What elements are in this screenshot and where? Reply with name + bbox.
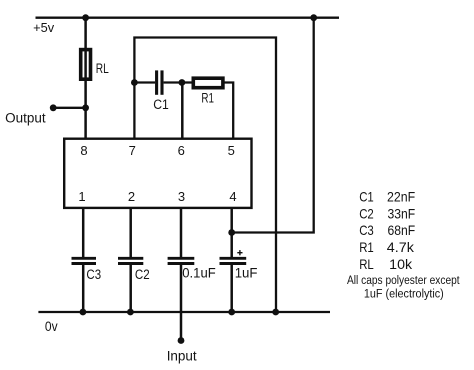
- svg-text:RL: RL: [359, 256, 374, 272]
- svg-text:R1: R1: [201, 91, 214, 106]
- wire: junction to R1 left: [182, 81, 192, 83]
- 1uF polarity + mark: [237, 252, 242, 254]
- wire: 0.1uF down across 0v rail to Input node: [180, 264, 183, 341]
- wire: pin 1 to C3: [82, 209, 85, 258]
- capacitor C2: [118, 257, 143, 260]
- capacitor C1: [155, 70, 158, 94]
- junction: pin 4 / +5v riser / 1uF: [228, 229, 235, 236]
- svg-text:Input: Input: [167, 348, 197, 363]
- svg-text:1: 1: [78, 189, 85, 204]
- junction: +5v rail / pin4 riser: [310, 14, 317, 21]
- wire: pin 3 to 0.1uF: [180, 209, 183, 258]
- svg-text:C2: C2: [359, 205, 374, 221]
- svg-text:4: 4: [229, 189, 236, 204]
- capacitor C3: [72, 257, 97, 260]
- svg-text:33nF: 33nF: [388, 205, 416, 221]
- node: Output terminal: [50, 104, 57, 111]
- wire: pin 6 riser: [181, 83, 184, 139]
- junction: C3 / 0v rail: [80, 309, 87, 316]
- wire: R1 right to pin 5: [224, 83, 233, 139]
- wire: C3 to 0v rail: [82, 264, 85, 313]
- resistor R1: [193, 78, 223, 88]
- svg-text:0.1uF: 0.1uF: [182, 266, 215, 281]
- svg-text:2: 2: [128, 189, 135, 204]
- svg-text:RL: RL: [96, 61, 109, 76]
- wire: C1 left lead: [134, 81, 155, 83]
- svg-text:6: 6: [178, 143, 185, 158]
- wire: +5v rail through RL down to IC pin 8: [84, 17, 87, 139]
- svg-text:Output: Output: [5, 110, 46, 125]
- wire: C2 to 0v rail: [129, 264, 132, 313]
- junction: +5v rail / RL branch: [82, 14, 89, 21]
- svg-text:All caps polyester except: All caps polyester except: [347, 275, 460, 287]
- +5v rail: [36, 17, 340, 19]
- svg-text:22nF: 22nF: [387, 189, 415, 205]
- svg-text:C3: C3: [86, 267, 101, 282]
- svg-text:1uF (electrolytic): 1uF (electrolytic): [364, 289, 444, 301]
- capacitor 0.1uF (input coupling): [168, 257, 195, 260]
- svg-text:R1: R1: [359, 239, 374, 255]
- wire: C1 right lead: [164, 81, 182, 83]
- svg-text:C2: C2: [135, 267, 150, 282]
- wire: pin 4 junction to +5v riser: [232, 17, 314, 233]
- svg-text:68nF: 68nF: [388, 222, 416, 238]
- wire: pin 2 to C2: [129, 209, 132, 258]
- svg-text:4.7k: 4.7k: [387, 239, 415, 255]
- junction: output tap / pin 8 wire: [82, 104, 89, 111]
- wire: 1uF to 0v rail: [230, 264, 233, 313]
- svg-text:10k: 10k: [389, 256, 413, 272]
- svg-text:C1: C1: [153, 97, 169, 112]
- svg-text:8: 8: [80, 143, 87, 158]
- node: Input terminal: [178, 337, 185, 344]
- svg-text:+5v: +5v: [33, 21, 55, 35]
- svg-text:1uF: 1uF: [235, 266, 258, 281]
- svg-text:C1: C1: [359, 189, 374, 205]
- svg-text:5: 5: [228, 143, 235, 158]
- resistor RL: [81, 50, 91, 80]
- 0v rail: [38, 311, 330, 313]
- wire: pin 7 riser / feedback loop top / right drop to 0v: [134, 38, 276, 313]
- svg-text:3: 3: [178, 189, 185, 204]
- svg-text:0v: 0v: [45, 319, 58, 334]
- wire: pin 4 to junction: [230, 209, 233, 258]
- wire: output tap: [53, 107, 85, 109]
- junction: C1 / R1 / pin 6 riser: [179, 79, 186, 86]
- junction: pin 7 wire / C1 left lead: [131, 79, 138, 86]
- capacitor 1uF (electrolytic): [220, 257, 247, 260]
- svg-text:7: 7: [129, 143, 136, 158]
- junction: 1uF / 0v rail: [228, 309, 235, 316]
- IC U1 body: [64, 139, 251, 208]
- svg-text:C3: C3: [359, 222, 374, 238]
- junction: loop drop / 0v rail: [272, 309, 279, 316]
- junction: C2 / 0v rail: [127, 309, 134, 316]
